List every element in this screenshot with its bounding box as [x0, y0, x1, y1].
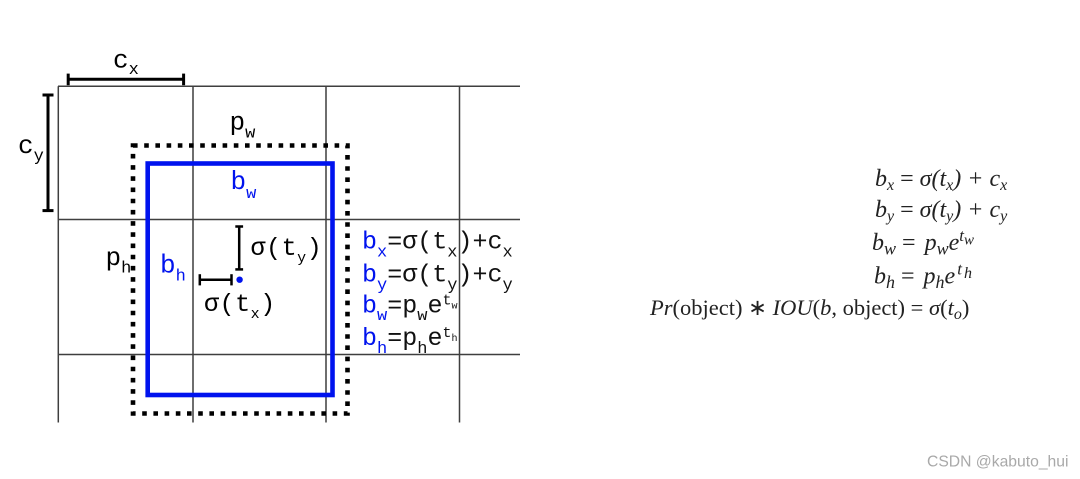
- c_y dimension bar: [43, 95, 54, 211]
- predicted box (blue): [148, 164, 333, 396]
- grid vertical line 4: [459, 86, 461, 422]
- grid horizontal line 1: [58, 85, 520, 87]
- grid horizontal line 2: [58, 219, 520, 221]
- grid horizontal line 3: [58, 354, 520, 356]
- prior box (dotted): [133, 146, 348, 414]
- svg-text:CSDN @kabuto_hui: CSDN @kabuto_hui: [927, 454, 1069, 471]
- svg-text:σ(tx): σ(tx): [204, 290, 276, 323]
- c_x dimension bar: [68, 74, 183, 86]
- svg-text:bx = σ(tx) + cx: bx = σ(tx) + cx: [875, 166, 1007, 194]
- grid vertical line 2: [192, 86, 194, 422]
- grid vertical line 3: [325, 86, 327, 422]
- svg-text:Pr(object) ∗ IOU(b, object) =: Pr(object) ∗ IOU(b, object) = σ(to): [649, 295, 969, 323]
- center point (blue dot): [236, 277, 242, 283]
- sigma(t_y) offset bar: [235, 227, 243, 270]
- grid vertical line 1: [57, 86, 59, 422]
- svg-text:by = σ(ty) + cy: by = σ(ty) + cy: [875, 197, 1008, 225]
- svg-text:σ(ty): σ(ty): [251, 234, 323, 267]
- sigma(t_x) offset bar: [200, 274, 232, 285]
